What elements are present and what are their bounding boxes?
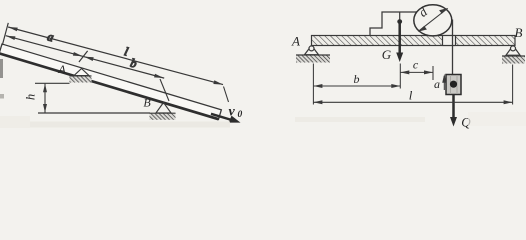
svg-text:l: l (409, 88, 413, 103)
ext slash at b dim right end (160, 79, 169, 101)
dim line l (8, 27, 223, 85)
svg-text:G: G (382, 47, 392, 62)
dimension group, 15deg (2, 13, 226, 103)
svg-text:A: A (57, 62, 66, 76)
extension line top of h (35, 82, 70, 84)
svg-text:B: B (143, 96, 151, 110)
svg-text:a: a (434, 77, 440, 91)
support A (right fig) (296, 46, 330, 63)
pulley diameter arrow d (418, 8, 449, 32)
G hanger dot and stem (399, 12, 401, 20)
svg-text:b: b (354, 72, 360, 86)
arrowheads, dim a (5, 34, 15, 40)
dim line a+b (6, 36, 164, 78)
extension lines (313, 64, 512, 105)
beam (hatched) (312, 35, 516, 46)
svg-text:h: h (24, 94, 38, 100)
plank body (0, 44, 221, 119)
weight block (446, 75, 461, 95)
plank bottom thick edge (0, 53, 219, 119)
v0 arrow (211, 114, 241, 123)
support A (left fig) (70, 69, 92, 83)
extension line left end (2, 23, 8, 45)
triangle A (74, 69, 89, 76)
faint scan ghost marks bottom (30, 122, 230, 128)
extension line right end (224, 87, 229, 103)
svg-text:c: c (413, 58, 419, 72)
svg-text:B: B (515, 25, 523, 40)
svg-text:v: v (229, 105, 236, 120)
pad A hatched (70, 76, 92, 83)
arrowheads, dim b (84, 55, 94, 61)
svg-text:0: 0 (238, 110, 243, 120)
plank group, incline 17deg (0, 44, 221, 119)
svg-text:A: A (291, 34, 300, 49)
Q force arrow (452, 95, 455, 120)
dim a (vertical, next to weight) (442, 74, 446, 90)
dim l (right fig) (313, 100, 512, 104)
arrowheads, dim l (8, 25, 18, 31)
ground line (left fig) (38, 112, 150, 114)
dim c (400, 70, 433, 74)
white slot where cable passes (443, 35, 456, 46)
scan smudge left edge (0, 59, 3, 78)
h dim line (44, 84, 46, 113)
pulley (414, 5, 452, 36)
dim b (313, 84, 400, 88)
h dimension (35, 83, 70, 112)
G force arrow (398, 23, 401, 55)
support B (left fig) (150, 103, 176, 120)
cable from pulley to weight (452, 20, 454, 75)
trolley bracket (stepped outline) (370, 12, 417, 36)
tick at a/b junction (79, 49, 88, 63)
support B (right fig) (502, 46, 525, 64)
